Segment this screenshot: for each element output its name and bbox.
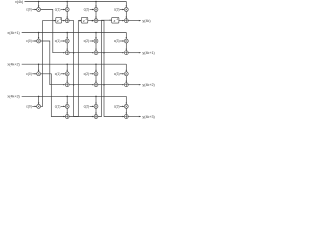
wire adder row 2 col3 output join <box>98 52 104 54</box>
node junction dot interval 2 row 2 <box>73 52 75 54</box>
multiplier c(3) row 2 <box>124 39 128 43</box>
svg-text:y(4k): y(4k) <box>142 19 150 23</box>
svg-text:c(3): c(3) <box>114 72 120 76</box>
delay z^-1 box D2 row 1 <box>81 17 88 23</box>
node junction dot interval 2 row 3 <box>73 84 75 86</box>
wire bus drop into multiplier col3 row 1 <box>95 2 97 8</box>
wire junction dots on bus row 4 <box>38 96 40 98</box>
multiplier c(0) row 1 <box>37 8 41 12</box>
wire junction dots on bus row 2 <box>38 32 40 34</box>
wire coefficient arrow c(2) row 2 <box>90 40 94 42</box>
wire adder row 3 col3 output join <box>98 84 104 86</box>
multiplier c(1) row 1 <box>65 8 69 12</box>
wire multiplier to adder drop row 1 col2 <box>66 11 68 18</box>
wire multiplier to adder drop row 4 col2 <box>66 108 68 114</box>
wire bus drop arrow col4 row 3 <box>126 70 127 72</box>
svg-text:y(4k+2): y(4k+2) <box>142 83 154 87</box>
op adder row 1 col3 <box>94 19 98 23</box>
svg-text:c(0): c(0) <box>26 105 32 109</box>
wire multiplier to adder drop row 1 col4 <box>125 11 127 18</box>
svg-text:y(4k+1): y(4k+1) <box>142 51 154 55</box>
wire bus drop into multiplier col1 row 4 <box>38 96 40 104</box>
wire junction dots on bus row 3 <box>38 63 40 65</box>
svg-text:c(2): c(2) <box>84 72 90 76</box>
multiplier c(2) row 1 <box>94 8 98 12</box>
wire M11 output down to adder row 2 col2 <box>41 10 66 53</box>
svg-text:x(4k+1): x(4k+1) <box>7 31 19 35</box>
wire input bus row 3 <box>22 63 127 65</box>
wire bus drop into multiplier col3 row 4 <box>95 96 97 104</box>
wire M21 output down to adder row 3 col2 <box>41 41 66 85</box>
wire bus drop into multiplier col3 row 2 <box>95 33 97 39</box>
wire multiplier to adder drop row 3 col4 <box>125 76 127 83</box>
wire coefficient arrow c(3) row 2 <box>120 40 124 42</box>
multiplier c(1) row 4 <box>65 104 69 108</box>
wire coefficient arrow c(0) row 3 <box>32 73 36 75</box>
wire coefficient arrow c(1) row 1 <box>61 9 65 11</box>
wire bus drop arrow col4 row 1 <box>126 6 127 8</box>
svg-text:y(4k+3): y(4k+3) <box>142 115 154 119</box>
wire coefficient arrow c(0) row 1 <box>32 9 36 11</box>
svg-text:c(0): c(0) <box>26 39 32 43</box>
wire output row 3 <box>128 84 140 86</box>
wire bus corner down to multiplier col4 row 4 <box>125 96 127 104</box>
op adder row 3 col4 <box>124 83 128 87</box>
wire riser adder row4 col2 output up to D2 <box>69 21 81 117</box>
wire bus corner down to multiplier col4 row 1 <box>125 2 127 8</box>
wire chain branch into adder row 3 col4 <box>104 84 124 86</box>
op adder row 4 col2 <box>65 115 69 119</box>
wire chain branch into adder row 2 col4 <box>104 52 124 54</box>
multiplier c(3) row 4 <box>124 104 128 108</box>
wire coefficient arrow c(1) row 2 <box>61 40 65 42</box>
wire bus drop into multiplier col2 row 2 <box>66 33 68 39</box>
wire bus drop into multiplier col1 row 2 <box>38 33 40 39</box>
wire bus drop arrow col4 row 2 <box>126 37 127 39</box>
wire coefficient arrow c(0) row 4 <box>32 105 36 107</box>
multiplier c(2) row 2 <box>94 39 98 43</box>
op adder row 2 col2 <box>65 51 69 55</box>
multiplier c(2) row 3 <box>94 72 98 76</box>
wire output row 4 <box>128 116 140 118</box>
multiplier c(0) row 2 <box>37 39 41 43</box>
wire input bus row 4 <box>22 95 127 97</box>
wire multiplier to adder drop row 2 col4 <box>125 43 127 51</box>
wire bus drop into multiplier col1 row 1 <box>38 2 40 8</box>
svg-text:c(2): c(2) <box>84 8 90 12</box>
wire chain branch into adder row 2 col3 <box>74 52 94 54</box>
svg-text:c(1): c(1) <box>55 72 61 76</box>
multiplier c(3) row 1 <box>124 8 128 12</box>
wire adder chain drop column interval 3 <box>98 21 124 117</box>
wire coefficient arrow c(1) row 4 <box>61 105 65 107</box>
wire coefficient arrow c(2) row 4 <box>90 105 94 107</box>
multiplier c(0) row 3 <box>37 72 41 76</box>
wire D1 output to adder <box>62 20 66 22</box>
wire D2 output to adder <box>88 20 94 22</box>
wire input bus row 2 <box>22 32 127 34</box>
wire multiplier to adder drop row 4 col3 <box>95 108 97 114</box>
wire D3 output to adder <box>119 20 124 22</box>
multiplier c(1) row 3 <box>65 72 69 76</box>
svg-text:c(3): c(3) <box>114 39 120 43</box>
svg-text:c(3): c(3) <box>114 105 120 109</box>
wire multiplier to adder drop row 2 col3 <box>95 43 97 51</box>
wire bus drop into multiplier col3 row 3 <box>95 64 97 71</box>
wire bus drop arrow col4 row 4 <box>126 102 127 104</box>
wire coefficient arrow c(3) row 3 <box>120 73 124 75</box>
svg-text:c(1): c(1) <box>55 39 61 43</box>
wire coefficient arrow c(3) row 1 <box>120 9 124 11</box>
wire multiplier to adder drop row 4 col4 <box>125 108 127 114</box>
op adder row 2 col3 <box>94 51 98 55</box>
multiplier c(1) row 2 <box>65 39 69 43</box>
multiplier c(2) row 4 <box>94 104 98 108</box>
svg-text:c(1): c(1) <box>55 8 61 12</box>
wire adder chain drop column interval 2 <box>69 21 94 117</box>
op adder row 3 col3 <box>94 83 98 87</box>
op adder row 1 col2 <box>65 19 69 23</box>
wire bus drop into multiplier col2 row 4 <box>66 96 68 104</box>
svg-text:x(4k): x(4k) <box>15 0 23 4</box>
wire multiplier to adder drop row 2 col2 <box>66 43 68 51</box>
node junction dot interval 3 row 3 <box>103 84 105 86</box>
wire bus corner down to multiplier col4 row 2 <box>125 33 127 39</box>
wire bus drop into multiplier col2 row 1 <box>66 2 68 8</box>
wire adder row 3 col2 output join <box>69 84 73 86</box>
node junction dot riser2 top <box>79 20 81 22</box>
wire bus corner down to multiplier col4 row 3 <box>125 64 127 71</box>
svg-text:c(3): c(3) <box>114 8 120 12</box>
op adder row 3 col2 <box>65 83 69 87</box>
node junction dot before adder row1 col3 <box>92 20 94 22</box>
wire input bus row 1 <box>25 1 127 3</box>
svg-text:c(2): c(2) <box>84 105 90 109</box>
svg-text:c(0): c(0) <box>26 72 32 76</box>
multiplier c(3) row 3 <box>124 72 128 76</box>
svg-text:c(1): c(1) <box>55 105 61 109</box>
svg-text:c(0): c(0) <box>26 8 32 12</box>
svg-text:c(2): c(2) <box>84 39 90 43</box>
wire chain branch into adder row 3 col3 <box>74 84 94 86</box>
wire coefficient arrow c(2) row 1 <box>90 9 94 11</box>
op adder row 4 col3 <box>94 115 98 119</box>
wire coefficient arrow c(0) row 2 <box>32 40 36 42</box>
wire riser adder row4 col3 output up to D3 <box>98 20 112 116</box>
wire junction dots on bus row 1 <box>38 1 40 3</box>
delay z^-1 box D1 row 1 <box>56 17 62 23</box>
wire coefficient arrow c(1) row 3 <box>61 73 65 75</box>
multiplier c(0) row 4 <box>37 104 41 108</box>
wire M31 output down to adder row 4 col2 <box>41 74 66 117</box>
delay z^-1 box D3 row 1 <box>112 17 119 23</box>
wire bus drop into multiplier col1 row 3 <box>38 64 40 71</box>
op adder row 4 col4 <box>124 115 128 119</box>
node junction dot interval 3 row 2 <box>103 52 105 54</box>
svg-text:x(4k+2): x(4k+2) <box>7 63 19 67</box>
wire bus drop into multiplier col2 row 3 <box>66 64 68 71</box>
wire coefficient arrow c(2) row 3 <box>90 73 94 75</box>
svg-text:x(4k+3): x(4k+3) <box>7 95 19 99</box>
wire coefficient arrow c(3) row 4 <box>120 105 124 107</box>
wire multiplier to adder drop row 3 col3 <box>95 76 97 83</box>
wire output row 1 <box>128 20 140 22</box>
wire output row 2 <box>128 52 140 54</box>
op adder row 1 col4 <box>124 19 128 23</box>
wire adder row 2 col2 output join <box>69 52 73 54</box>
wire multiplier to adder drop row 3 col2 <box>66 76 68 83</box>
wire multiplier to adder drop row 1 col3 <box>95 11 97 18</box>
wire riser M41 output up to D1 row 1 <box>41 21 56 107</box>
op adder row 2 col4 <box>124 51 128 55</box>
